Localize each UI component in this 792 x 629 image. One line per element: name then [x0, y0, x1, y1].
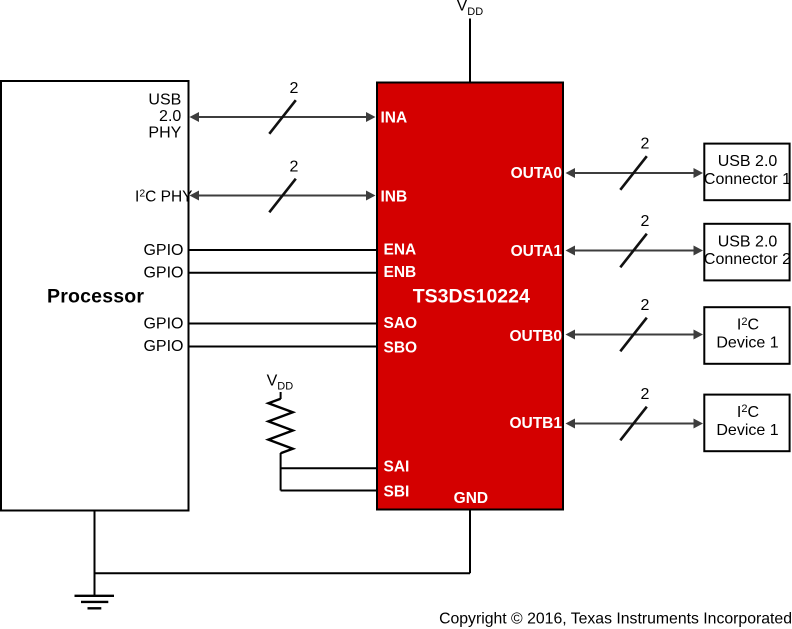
bus width label 2 (INA)	[290, 80, 299, 97]
svg-text:INA: INA	[381, 110, 408, 127]
svg-text:I2C: I2C	[737, 316, 759, 334]
svg-text:ENB: ENB	[384, 264, 417, 281]
wire resistor to SBI node	[280, 453, 282, 491]
pin OUTA0	[511, 165, 562, 182]
svg-text:VDD: VDD	[267, 372, 294, 392]
svg-text:Connector 1: Connector 1	[704, 171, 791, 188]
pin SBO	[384, 340, 418, 357]
svg-text:Connector 2: Connector 2	[704, 251, 791, 268]
svg-text:ENA: ENA	[384, 241, 417, 258]
ground	[75, 596, 115, 609]
bus width label 2 (INB)	[290, 159, 299, 176]
bus OUTB0: double arrow	[566, 330, 704, 340]
block: USB 2.0 Connector 2	[704, 224, 791, 281]
resistor (pull-up)	[268, 399, 292, 454]
wire VDD to IC top	[469, 19, 471, 83]
bus width label 2 (OUTA0)	[641, 136, 650, 153]
bus INA: double arrow	[190, 112, 376, 122]
svg-text:SAO: SAO	[384, 315, 418, 332]
svg-text:SBO: SBO	[384, 340, 418, 357]
wire SBO	[189, 346, 377, 348]
pin SAO	[384, 315, 418, 332]
block: I2C Device 1 (lower)	[704, 395, 789, 452]
bus width slash OUTB0	[620, 318, 647, 352]
wire GND horizontal	[95, 572, 471, 574]
svg-text:INB: INB	[381, 188, 408, 205]
block: I2C Device 1 (upper)	[704, 307, 789, 364]
wire VDD to resistor	[280, 392, 282, 399]
svg-text:Device 1: Device 1	[716, 422, 778, 439]
processor block	[1, 81, 189, 511]
pin GND	[454, 490, 488, 507]
svg-text:GND: GND	[454, 490, 488, 507]
pin SAI	[384, 459, 410, 476]
svg-text:Processor: Processor	[47, 285, 144, 307]
label: Processor	[47, 285, 144, 307]
svg-text:2: 2	[641, 386, 650, 403]
svg-text:SBI: SBI	[384, 483, 410, 500]
svg-text:SAI: SAI	[384, 459, 410, 476]
label: GPIO (SBO)	[143, 338, 183, 355]
svg-text:PHY: PHY	[148, 125, 181, 142]
label: USB 2.0 PHY	[148, 91, 181, 141]
bus width slash OUTB1	[620, 407, 647, 441]
svg-text:GPIO: GPIO	[143, 265, 183, 282]
bus width slash OUTA0	[620, 156, 647, 190]
svg-text:I2C: I2C	[737, 403, 759, 421]
svg-text:Copyright © 2016, Texas Instru: Copyright © 2016, Texas Instruments Inco…	[439, 610, 792, 627]
pin INA	[381, 110, 408, 127]
bus width label 2 (OUTB1)	[641, 386, 650, 403]
svg-text:2.0: 2.0	[159, 108, 181, 125]
pin OUTB1	[509, 415, 562, 432]
label: GPIO (SAO)	[143, 315, 183, 332]
svg-text:GPIO: GPIO	[143, 242, 183, 259]
bus width slash INB	[269, 179, 296, 213]
svg-text:OUTA0: OUTA0	[511, 165, 562, 182]
bus OUTA0: double arrow	[566, 168, 704, 178]
bus width slash OUTA1	[620, 234, 647, 268]
svg-text:GPIO: GPIO	[143, 338, 183, 355]
pin ENB	[384, 264, 417, 281]
svg-text:OUTB1: OUTB1	[509, 415, 562, 432]
block: USB 2.0 Connector 1	[704, 144, 791, 201]
pin INB	[381, 188, 408, 205]
wire GND pin down	[469, 511, 471, 574]
VDD supply (resistor)	[267, 372, 294, 392]
bus INB: double arrow	[190, 191, 376, 201]
svg-text:OUTB0: OUTB0	[509, 328, 562, 345]
svg-text:2: 2	[641, 297, 650, 314]
pin OUTB0	[509, 328, 562, 345]
label: GPIO (ENA)	[143, 242, 183, 259]
svg-text:USB 2.0: USB 2.0	[718, 233, 778, 250]
label: GPIO (ENB)	[143, 265, 183, 282]
svg-text:2: 2	[290, 80, 299, 97]
svg-text:GPIO: GPIO	[143, 315, 183, 332]
bus width label 2 (OUTA1)	[641, 213, 650, 230]
svg-text:2: 2	[641, 213, 650, 230]
svg-text:Device 1: Device 1	[716, 335, 778, 352]
wire SAI	[281, 467, 377, 469]
bus OUTA1: double arrow	[566, 246, 704, 256]
pin SBI	[384, 483, 410, 500]
wire ENA	[189, 249, 377, 251]
svg-text:2: 2	[290, 159, 299, 176]
copyright note	[439, 610, 792, 627]
wire processor to ground	[94, 511, 96, 596]
VDD supply (top)	[457, 0, 484, 18]
bus width label 2 (OUTB0)	[641, 297, 650, 314]
svg-text:USB: USB	[148, 91, 181, 108]
wire ENB	[189, 272, 377, 274]
svg-text:TS3DS10224: TS3DS10224	[413, 286, 530, 308]
svg-text:2: 2	[641, 136, 650, 153]
pin ENA	[384, 241, 417, 258]
wire SBI	[281, 490, 377, 492]
pin OUTA1	[511, 243, 563, 260]
IC U1 TS3DS10224	[377, 83, 563, 510]
wire SAO	[189, 323, 377, 325]
svg-text:OUTA1: OUTA1	[511, 243, 563, 260]
bus OUTB1: double arrow	[566, 419, 704, 429]
label: I2C PHY	[135, 188, 192, 205]
svg-text:USB 2.0: USB 2.0	[718, 153, 778, 170]
bus width slash INA	[269, 100, 296, 134]
svg-text:VDD: VDD	[457, 0, 484, 18]
